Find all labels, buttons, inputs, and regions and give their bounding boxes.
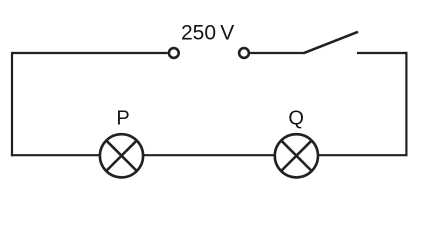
svg-text:250 V: 250 V <box>181 22 234 45</box>
svg-text:Q: Q <box>288 108 304 130</box>
terminal left (supply) <box>169 48 179 58</box>
wire switch contact to top-right corner <box>357 52 407 54</box>
wire bottom-left horizontal <box>11 154 100 156</box>
lamp P symbol <box>100 134 143 177</box>
wire bottom-right horizontal <box>319 154 408 156</box>
wire right vertical <box>405 52 407 155</box>
lamp Q symbol <box>275 134 318 177</box>
wire left vertical <box>11 52 13 156</box>
wire between lamps <box>144 154 274 156</box>
svg-text:P: P <box>116 108 129 130</box>
terminal right (supply) <box>239 48 249 58</box>
wire terminal to switch pivot <box>250 52 304 54</box>
switch S1 blade (open) <box>304 32 359 53</box>
wire top-left horizontal <box>12 52 168 54</box>
